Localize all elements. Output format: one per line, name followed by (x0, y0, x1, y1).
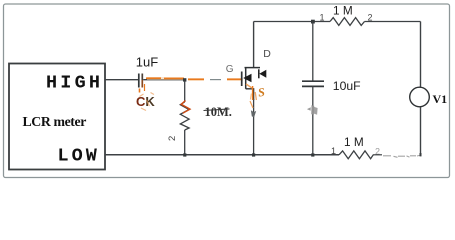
capacitor C1 1uF (138, 74, 140, 88)
dashed faded wire to right rail (373, 154, 382, 156)
transistor Q1 (NMOS) (242, 22, 267, 155)
capacitor C2 10uF (312, 22, 314, 82)
grey dash segment of gate wire (210, 79, 221, 81)
svg-text:1: 1 (331, 146, 336, 156)
LCR meter box (9, 64, 105, 170)
voltage source V1 (410, 87, 430, 107)
svg-text:D: D (263, 48, 271, 60)
drain lead down from top wire (253, 22, 255, 68)
channel bar (245, 68, 247, 89)
probe arrow on source line (251, 110, 256, 117)
source lead (246, 89, 254, 100)
top wire drain to R1 (254, 21, 330, 23)
probe arrow (grey cursor) (307, 107, 311, 111)
junction dot 10M bottom (183, 153, 186, 156)
wire HIGH lead (105, 79, 138, 81)
resistor R3 1M (bottom) (339, 151, 373, 159)
svg-text:1: 1 (320, 13, 325, 23)
resistor R2 10M (vertical) (184, 81, 186, 102)
node junction top of C2 (311, 20, 315, 24)
node junction at gate/10M (183, 78, 186, 81)
svg-text:LOW: LOW (58, 146, 100, 167)
outer border frame (4, 4, 450, 178)
wire cap to junction (143, 79, 185, 81)
wire R1 to right rail (365, 21, 421, 23)
svg-text:LCR meter: LCR meter (23, 114, 87, 129)
bottom wire LOW to R3 (105, 154, 339, 156)
right rail from top corner (420, 22, 422, 88)
orange highlight marks near source (252, 86, 254, 100)
svg-text:1 M: 1 M (344, 135, 364, 149)
orange highlight on upper zigzag (181, 101, 190, 114)
junction dot source bottom (252, 153, 255, 156)
top horizontal bar (245, 67, 261, 69)
svg-text:1uF: 1uF (136, 55, 158, 70)
svg-text:S: S (257, 85, 266, 100)
svg-text:10uF: 10uF (333, 79, 361, 93)
svg-text:V1: V1 (433, 92, 448, 106)
highlighted wire (orange dashes over gate net) (147, 79, 243, 80)
gate bar (241, 72, 243, 87)
body diode triangle (259, 70, 266, 78)
svg-text:HIGH: HIGH (46, 72, 103, 93)
junction dot C2 bottom (311, 153, 314, 156)
rail below V1 (420, 107, 422, 155)
svg-text:2: 2 (167, 136, 178, 141)
svg-text:1 M: 1 M (333, 4, 353, 18)
svg-text:CK: CK (136, 94, 155, 109)
svg-text:G: G (226, 64, 234, 75)
resistor R1 1M (top) (330, 18, 365, 26)
body diode bar (258, 69, 260, 78)
svg-text:10M.: 10M. (205, 105, 232, 119)
body arrow (left triangle) (243, 74, 251, 83)
